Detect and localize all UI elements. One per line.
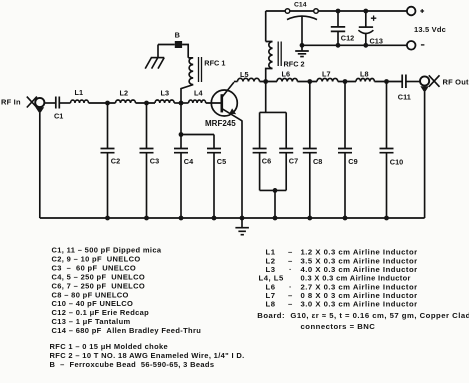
svg-text:1.2 X 0.3 cm Airline Inductor: 1.2 X 0.3 cm Airline Inductor [301,248,418,257]
inductor L2 [116,88,136,103]
svg-text:L1: L1 [266,248,276,257]
svg-text:RF Out: RF Out [443,77,469,86]
capacitor C8 [303,82,323,219]
svg-text:C12: C12 [341,33,354,42]
node rail C2 [105,216,110,221]
svg-text:connectors = BNC: connectors = BNC [301,322,376,331]
ferrite bead B [175,30,183,48]
svg-text:RFC 1 – 0 15 μH Molded choke: RFC 1 – 0 15 μH Molded choke [50,342,169,351]
svg-text:0 8 X 0 3 cm Airline Inductor: 0 8 X 0 3 cm Airline Inductor [301,291,418,300]
capacitor C7 [279,112,298,190]
wire supply top line [266,10,407,12]
capacitor C12 [331,11,354,45]
battery minus terminal [407,41,424,50]
svg-text:L6: L6 [282,69,291,78]
node C3 junction [144,101,149,106]
wire supply minus line [302,44,407,46]
node rail C4 [179,216,184,221]
node C2 junction [105,101,110,106]
svg-text:–: – [288,248,293,257]
wire C6/C7 feed [265,82,267,113]
node C12 top [336,9,341,14]
wire C6/C7 bottom bar [260,189,287,191]
svg-text:4.0 X 0.3 cm Airline Inductor: 4.0 X 0.3 cm Airline Inductor [301,265,418,274]
wire bead right to RFC1 [182,45,188,58]
chassis ground (bead) [145,45,164,69]
svg-text:B – Ferroxcube Bead 56-590-: B – Ferroxcube Bead 56-590-65, 3 Beads [50,360,215,369]
svg-text:C6: C6 [262,157,271,166]
feed-through capacitor C14 [285,1,318,45]
svg-text:C14 – 680 pF Allen Bradley Fe: C14 – 680 pF Allen Bradley Feed-Thru [52,326,202,335]
svg-text:–: – [288,300,293,309]
wire [136,102,156,104]
svg-text:C1: C1 [54,112,63,121]
svg-text:RFC 1: RFC 1 [204,58,225,67]
wire output shield down [424,92,426,218]
wire bead left [158,44,175,46]
svg-text:L7: L7 [266,291,276,300]
node C12 bottom [336,43,341,48]
wire [89,102,116,104]
value label C1 list [50,246,469,370]
svg-text:C2, 9 – 10 pF UNELCO: C2, 9 – 10 pF UNELCO [52,255,141,264]
svg-text:3.0 X 0.3 cm Airline Inductor: 3.0 X 0.3 cm Airline Inductor [301,300,418,309]
node C4/C5 bar junction [179,132,184,137]
node rail C5 [212,216,217,221]
wire ground rail [40,217,425,219]
svg-text:C8: C8 [313,157,322,166]
wire collector to output line [234,81,238,83]
wire C6/C7 top bar [260,111,287,113]
node rail C3 [144,216,149,221]
capacitor C10 [380,82,404,219]
svg-text:RF In: RF In [1,98,21,107]
wire [406,81,420,83]
wire [338,81,356,83]
inductor RFC1 [181,57,225,103]
inductor L1 [71,88,89,103]
node C9 junction [343,79,348,84]
svg-text:C6, 7 – 250 pF UNELCO: C6, 7 – 250 pF UNELCO [52,281,146,290]
svg-text:C13 – 1 μF Tantalum: C13 – 1 μF Tantalum [52,317,131,326]
node C8 junction [307,79,312,84]
svg-text:L7: L7 [322,69,331,78]
wire C4-C5 bar [181,134,214,136]
svg-text:C3: C3 [150,157,159,166]
node rail C8 [307,216,312,221]
wire [59,102,70,104]
svg-text:–: – [288,291,293,300]
svg-text:C7: C7 [289,157,298,166]
inductor L5 [238,70,260,81]
capacitor C9 [338,82,358,219]
svg-text:C14: C14 [294,1,307,8]
wire input shield down [39,113,41,218]
svg-text:C12 – 0.1 μF Erie Redcap: C12 – 0.1 μF Erie Redcap [52,308,150,317]
svg-text:13.5 Vdc: 13.5 Vdc [414,25,446,34]
svg-text:L1: L1 [75,88,84,97]
node rail emitter [240,216,245,221]
node C13 bottom [363,43,368,48]
svg-text:L2: L2 [120,88,129,97]
wire C4 branch [180,103,182,135]
wire [45,102,56,104]
capacitor C11 [398,75,411,102]
wire supply to RFC2 [265,11,267,42]
svg-text:L4, L5: L4, L5 [259,274,284,283]
svg-text:L8: L8 [360,69,369,78]
node rail C9 [343,216,348,221]
ground under C14 [295,43,309,57]
svg-text:L4: L4 [194,88,203,97]
svg-text:C9: C9 [348,157,357,166]
svg-text:C4: C4 [184,157,194,166]
capacitor C13 polarized [358,11,382,46]
node rail C10 [384,216,389,221]
node C6/C7 bottom junction [273,188,278,193]
svg-text:C2: C2 [111,157,120,166]
connector RF In [27,97,45,114]
capacitor C1 [54,97,63,121]
wire [297,81,317,83]
inductor L7 [317,69,338,81]
svg-text:L5: L5 [240,70,249,79]
svg-text:C11: C11 [398,92,411,101]
svg-text:C4, 5 – 250 pF UNELCO: C4, 5 – 250 pF UNELCO [52,273,146,282]
capacitor C2 [101,103,121,218]
svg-text:RFC 2 – 10 T NO. 18 AWG Enamel: RFC 2 – 10 T NO. 18 AWG Enameled Wire, 1… [50,351,245,360]
svg-text:C10: C10 [390,158,403,167]
battery plus terminal [407,7,424,16]
capacitor C3 [140,103,160,218]
inductor L8 [356,69,374,81]
svg-text:L3: L3 [161,88,170,97]
ground (main rail) [235,218,249,235]
node rail C6/C7 [273,216,278,221]
capacitor C5 [207,135,226,219]
svg-text:C1, 11 – 500 pF Dipped mica: C1, 11 – 500 pF Dipped mica [52,246,162,255]
wire to rail [274,190,276,218]
connector RF Out [420,75,440,93]
wire emitter to ground rail [241,120,243,218]
node C10 junction [384,79,389,84]
wire [174,102,188,104]
wire base lead [206,102,222,104]
svg-text:·: · [289,265,292,274]
svg-text:C13: C13 [370,37,383,46]
svg-text:L3: L3 [266,265,276,274]
node C13 top [363,9,368,14]
capacitor C4 [174,135,194,219]
svg-text:RFC 2: RFC 2 [284,59,305,68]
svg-text:C10 – 40 pF UNELCO: C10 – 40 pF UNELCO [52,299,134,308]
wire [374,81,402,83]
inductor RFC2 [266,42,305,82]
svg-text:C8 – 80 pF UNELCO: C8 – 80 pF UNELCO [52,290,129,299]
svg-text:MRF245: MRF245 [205,119,236,128]
svg-text:L8: L8 [266,300,276,309]
inductor L4 [189,88,206,103]
transistor Q1 MRF245 [205,82,242,128]
svg-text:C3 – 60 pF UNELCO: C3 – 60 pF UNELCO [52,264,137,273]
inductor L3 [155,88,174,103]
capacitor C6 [253,112,272,190]
inductor L6 [277,69,297,81]
wire [260,81,278,83]
svg-text:C5: C5 [217,157,226,166]
svg-text:0.3 X 0.3 cm Airline Inductor: 0.3 X 0.3 cm Airline Inductor [301,274,411,283]
node RFC2 / C6C7 junction [263,79,268,84]
svg-text:Board: G10, εr ≈ 5, t = 0.16: Board: G10, εr ≈ 5, t = 0.16 cm, 57 gm, … [257,311,469,320]
svg-text:B: B [175,30,180,39]
node C4 / RFC1 junction [179,101,184,106]
